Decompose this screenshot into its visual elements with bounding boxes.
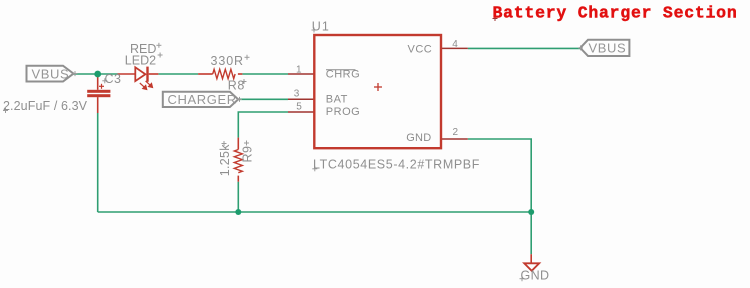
svg-text:GND: GND — [406, 132, 431, 144]
svg-text:330R: 330R — [211, 54, 244, 68]
svg-text:VBUS: VBUS — [589, 41, 627, 56]
svg-text:R8: R8 — [228, 79, 245, 93]
svg-text:4: 4 — [452, 39, 458, 50]
svg-text:PROG: PROG — [326, 106, 360, 118]
svg-text:1.25k: 1.25k — [218, 144, 232, 177]
svg-text:VCC: VCC — [408, 44, 433, 56]
svg-text:BAT: BAT — [326, 94, 348, 106]
svg-text:1: 1 — [296, 64, 302, 75]
svg-text:U1: U1 — [312, 19, 330, 33]
svg-text:LTC4054ES5-4.2#TRMPBF: LTC4054ES5-4.2#TRMPBF — [313, 158, 480, 172]
svg-text:GND: GND — [521, 269, 550, 283]
svg-text:3: 3 — [294, 89, 300, 100]
svg-text:2: 2 — [453, 127, 459, 138]
svg-text:R9: R9 — [240, 146, 254, 163]
svg-text:LED2: LED2 — [125, 54, 156, 68]
svg-text:C3: C3 — [105, 72, 122, 86]
svg-text:2.2uFuF / 6.3V: 2.2uFuF / 6.3V — [3, 99, 88, 113]
svg-text:Battery Charger Section: Battery Charger Section — [493, 4, 738, 23]
svg-text:5: 5 — [296, 101, 302, 112]
svg-text:VBUS: VBUS — [32, 66, 70, 81]
svg-text:CHARGER: CHARGER — [168, 92, 237, 107]
